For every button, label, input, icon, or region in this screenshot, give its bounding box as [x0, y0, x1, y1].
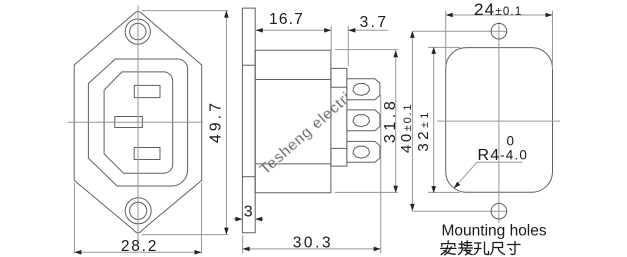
dimension line — [225, 11, 227, 235]
body edge line upper — [255, 79, 331, 81]
svg-text:0: 0 — [507, 133, 516, 148]
dimension 31.8 — [335, 50, 399, 193]
centerlines left view — [68, 5, 204, 241]
pin 1 tab — [347, 79, 380, 100]
pin 2 hole — [353, 115, 370, 127]
ext lines — [330, 26, 332, 50]
body — [255, 50, 331, 192]
pin 1 hole — [353, 83, 370, 95]
outer recess outline — [88, 59, 187, 186]
svg-text:-4.0: -4.0 — [500, 147, 528, 162]
装 — [459, 241, 473, 255]
svg-text:30.3: 30.3 — [293, 234, 334, 251]
inner recess outline — [104, 72, 173, 173]
boss box upper — [331, 68, 347, 87]
bottom hole centerline — [412, 210, 507, 212]
vertical centerline — [137, 5, 139, 241]
flange edge line lower — [242, 176, 255, 178]
dimension 32±1 (cutout height) — [428, 47, 460, 193]
svg-text:49.7: 49.7 — [208, 100, 225, 143]
dimension 3.7 — [331, 26, 388, 66]
flange plate — [242, 8, 255, 233]
bottom screw hole — [125, 198, 151, 224]
svg-text:31.8: 31.8 — [382, 98, 399, 144]
horizontal centerline — [68, 121, 204, 123]
bottom mounting hole — [491, 203, 507, 219]
top mounting hole — [491, 23, 507, 39]
extension line bottom — [142, 234, 228, 236]
tail line — [348, 29, 388, 31]
pin slot bottom — [134, 148, 160, 160]
panel cutout — [446, 48, 553, 193]
pin 2 tab — [347, 110, 380, 131]
svg-text:Mounting holes: Mounting holes — [442, 222, 547, 239]
dimension 16.7 — [256, 29, 331, 31]
dimension 30.3 — [243, 236, 381, 254]
pin 3 tab — [347, 141, 380, 162]
svg-text:3.7: 3.7 — [360, 14, 389, 31]
dimension 40±0.1 (hole spacing) — [411, 31, 413, 211]
label: 安装孔尺寸 (drawn strokes) — [441, 241, 520, 255]
boss box lower — [331, 148, 347, 166]
dimension 28.2 — [74, 183, 201, 254]
孔 — [474, 242, 489, 255]
尺 — [491, 243, 505, 255]
top hole centerline — [412, 30, 507, 32]
dimension 3 (flange thickness) — [233, 218, 264, 220]
flange edge line upper — [242, 64, 255, 66]
body edge line lower — [255, 163, 331, 165]
svg-text:16.7: 16.7 — [269, 11, 304, 28]
dimension 49.7 — [142, 11, 228, 235]
extension line top — [142, 10, 228, 12]
faston tabs — [347, 79, 380, 163]
top screw hole — [125, 19, 150, 44]
30.3 right extension line — [380, 95, 382, 254]
flange outline — [74, 12, 202, 233]
R4 radius callout — [454, 162, 523, 188]
dimension 24±0.1 — [446, 11, 553, 69]
pin 3 hole — [353, 146, 370, 158]
svg-text:28.2: 28.2 — [121, 238, 158, 255]
pin slot top — [134, 85, 160, 97]
安 — [441, 241, 456, 255]
pin slot middle — [115, 117, 143, 128]
horizontal centerline right view — [437, 120, 560, 122]
svg-text:3: 3 — [244, 203, 253, 220]
寸 — [508, 242, 521, 255]
svg-text:R4: R4 — [478, 147, 501, 164]
boss right edge — [346, 87, 348, 148]
vertical centerline — [498, 22, 500, 223]
